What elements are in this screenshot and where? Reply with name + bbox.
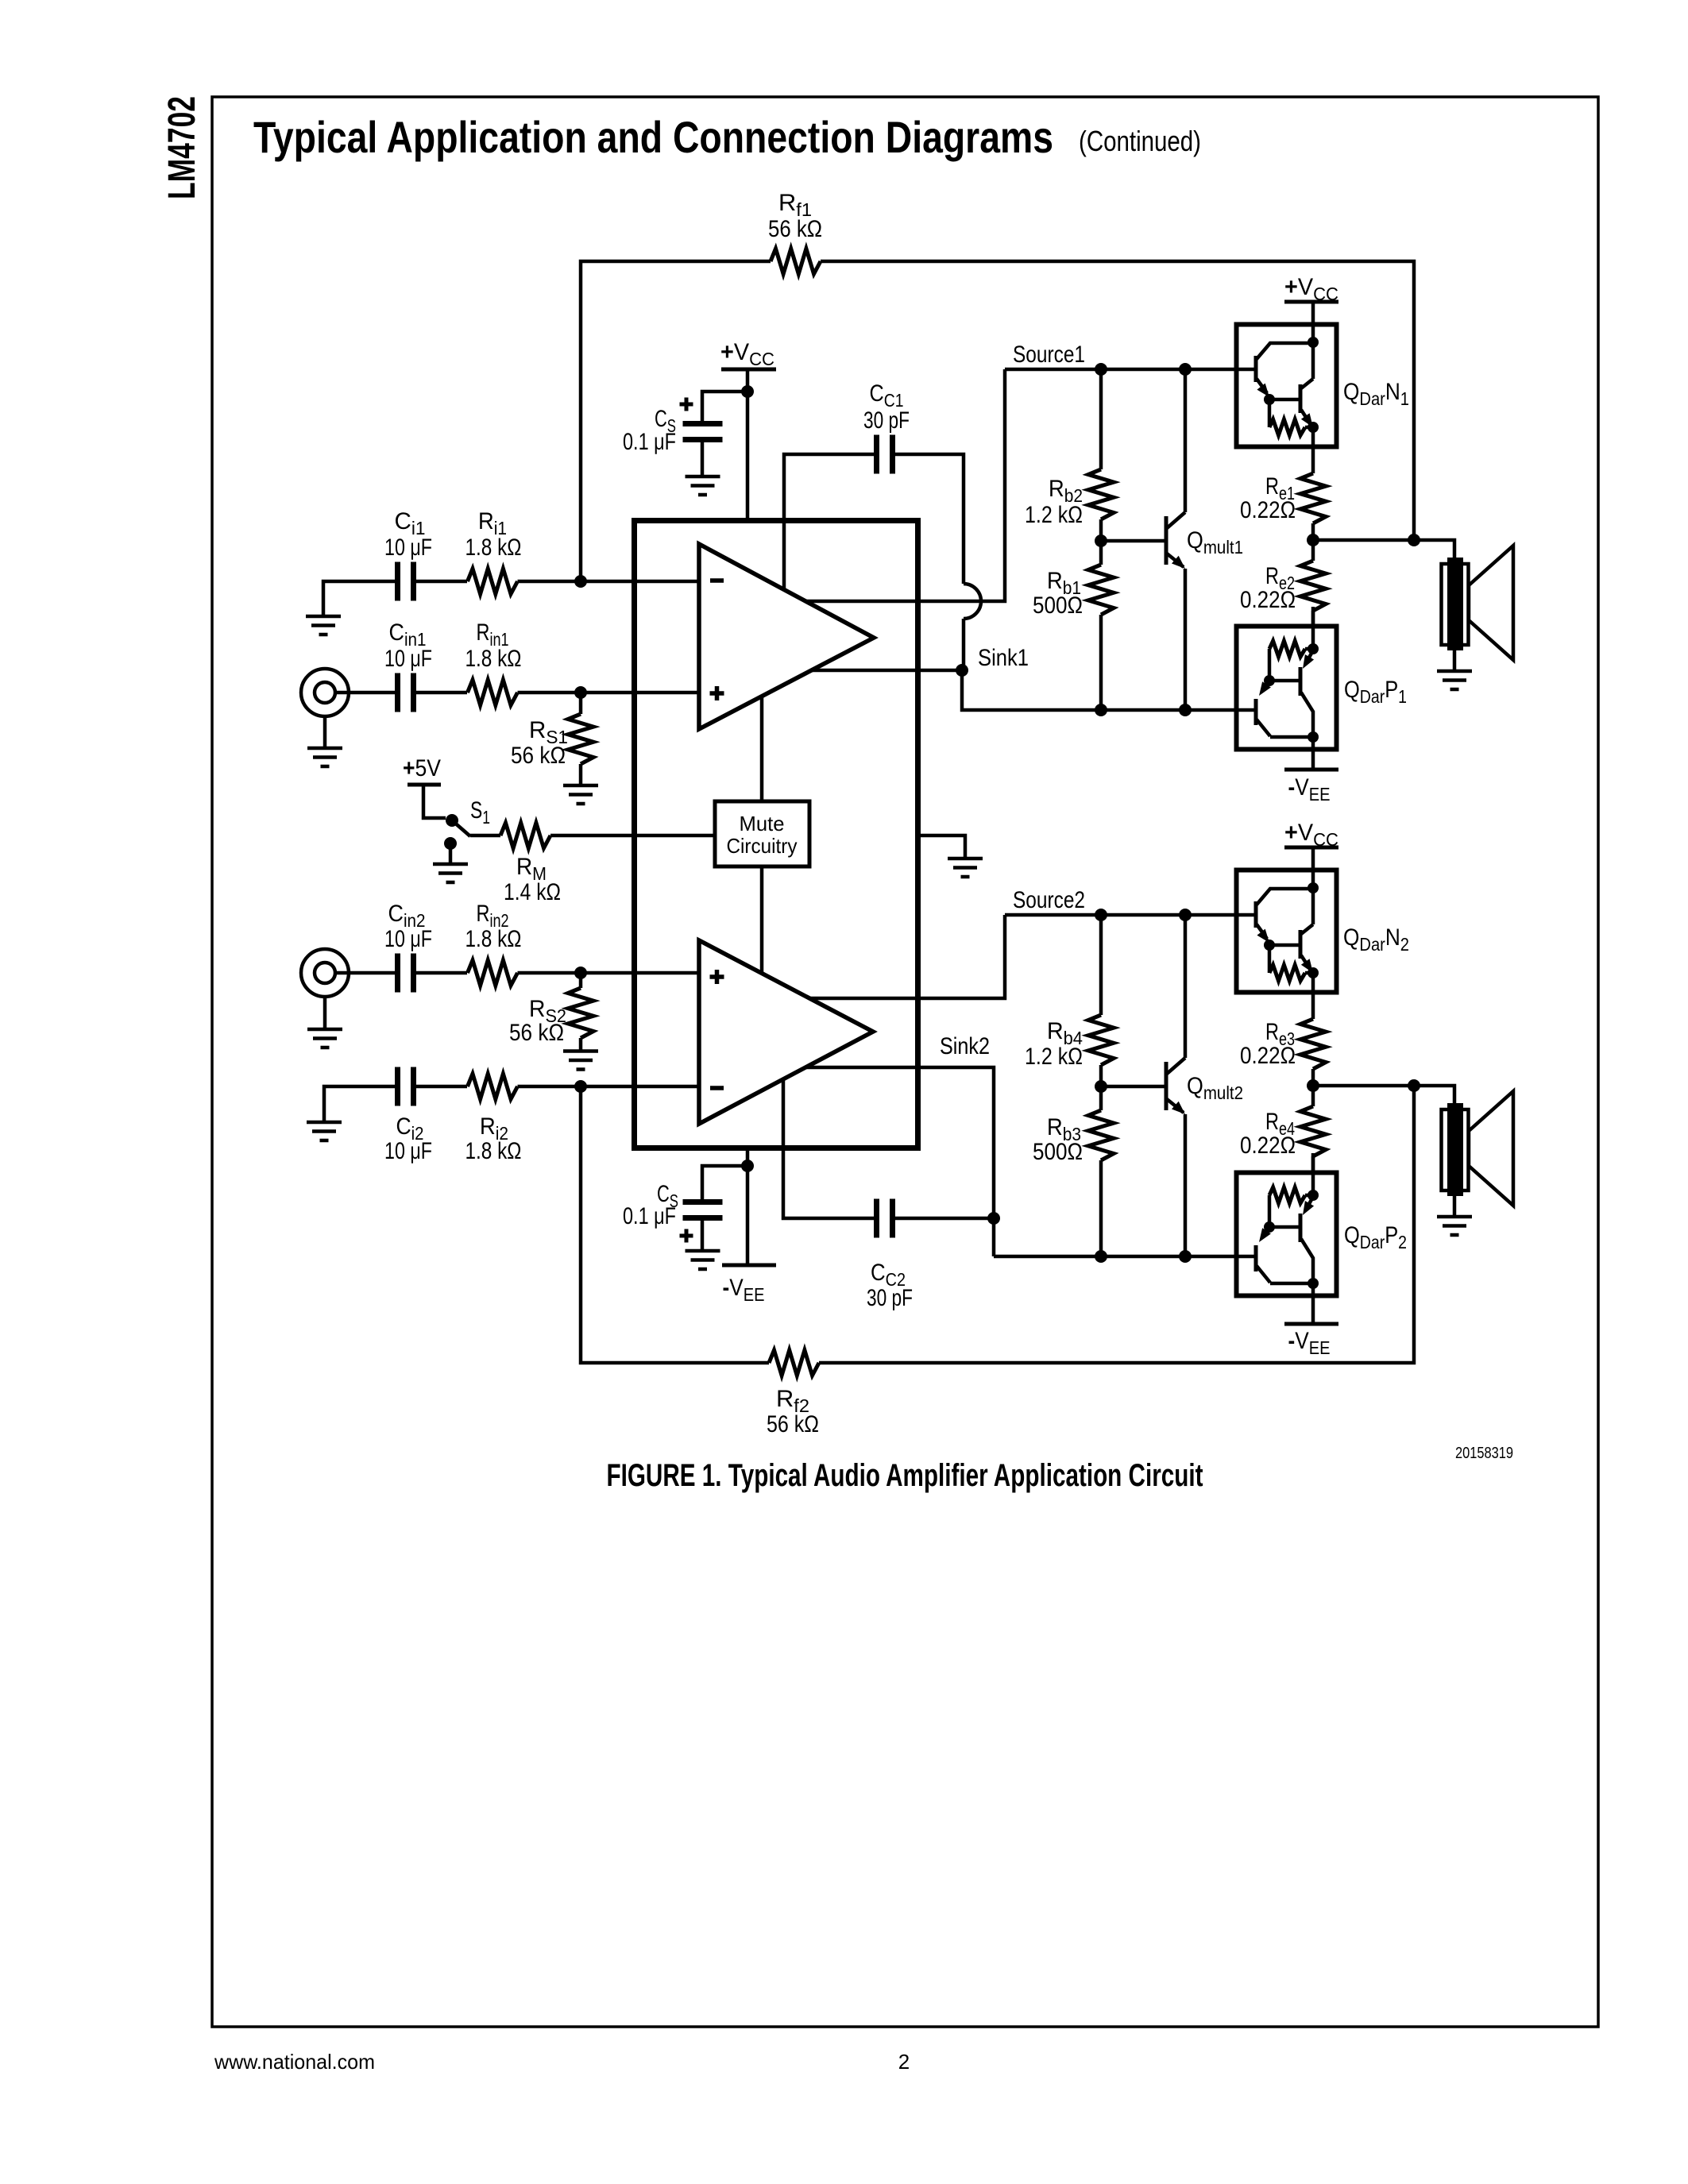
svg-text:0.22Ω: 0.22Ω — [1240, 497, 1296, 523]
power bar +VCC supply 1 — [721, 368, 776, 372]
wire Sink1 rail — [962, 670, 1254, 710]
node Source2 Qmult2 — [1179, 909, 1192, 921]
wire Source1 to Rb2 — [1099, 369, 1103, 469]
capacitor CS top — [683, 424, 723, 440]
svg-text:0.1 μF: 0.1 μF — [623, 429, 676, 455]
node Sink1 — [956, 664, 968, 677]
node Qmult2 base — [1095, 1080, 1107, 1093]
capacitor Cin1 — [398, 673, 414, 712]
resistor Re3 — [1300, 1019, 1326, 1069]
svg-text:56 kΩ: 56 kΩ — [767, 1411, 819, 1437]
darlington output transistor QDarN1 — [1237, 302, 1337, 473]
wire op-amp U1 comp pin to CC1 — [784, 454, 876, 589]
wire Re4 to QDarP2 — [1311, 1156, 1315, 1174]
wire Sink2 rail — [994, 1255, 1254, 1259]
node Source1 Qmult1 — [1179, 363, 1192, 376]
wire Re2 to QDarP1 — [1311, 611, 1315, 627]
ground switch S1 — [433, 864, 468, 882]
speaker 2 driver — [1442, 1103, 1469, 1196]
node +VCC CS junction — [741, 385, 754, 398]
op-amp U1 non-inverting input marker — [710, 686, 724, 700]
wire Ri1 to op-amp U1 inverting input — [518, 580, 700, 584]
polarity plus CS top — [680, 398, 693, 411]
wire Cin1 to Rin1 — [416, 691, 467, 695]
node Source2 Rb4 — [1095, 909, 1107, 921]
wire base node to Rb1 — [1099, 541, 1103, 565]
wire RCA jack 2 to Cin2 — [335, 971, 395, 975]
svg-text:1.8 kΩ: 1.8 kΩ — [465, 1138, 522, 1164]
wire op-amp U2 comp pin to CC2 — [783, 1079, 876, 1218]
ground speaker 2 — [1437, 1217, 1472, 1235]
wire feedback 1 right — [821, 261, 1414, 540]
wire op-amp U1 source output — [805, 369, 1005, 601]
wire Source2 rail — [1005, 913, 1254, 917]
svg-text:30 pF: 30 pF — [867, 1285, 913, 1311]
svg-text:www.national.com: www.national.com — [214, 2050, 375, 2074]
transistor Qmult2 — [1166, 915, 1185, 1256]
svg-text:2: 2 — [898, 2050, 910, 2074]
svg-text:(Continued): (Continued) — [1079, 125, 1201, 157]
power bar +5V — [408, 783, 441, 787]
ground CS bottom — [686, 1251, 720, 1269]
wire output node 2 to speaker 2 — [1313, 1086, 1454, 1109]
svg-text:+5V: +5V — [403, 755, 441, 781]
svg-text:Mute: Mute — [740, 812, 785, 835]
svg-text:Sink1: Sink1 — [978, 645, 1029, 671]
wire speaker 2 to ground — [1453, 1196, 1457, 1216]
resistor Rb4 — [1088, 1015, 1114, 1065]
op-amp U2 non-inverting input marker — [710, 970, 724, 984]
svg-text:0.22Ω: 0.22Ω — [1240, 587, 1296, 613]
wire feedback 1 left — [581, 261, 771, 581]
node output 1 Re — [1307, 534, 1319, 546]
svg-text:56 kΩ: 56 kΩ — [511, 743, 566, 769]
svg-text:Source2: Source2 — [1013, 887, 1085, 913]
node output 2 Re — [1307, 1079, 1319, 1092]
capacitor Cin2 — [398, 954, 414, 993]
wire Rb1 to Sink1 rail — [1099, 615, 1103, 710]
resistor Rf2 — [769, 1350, 819, 1376]
wire Rin2 to op-amp U2 non-inverting input — [518, 971, 700, 975]
wire Re4 from output node 2 — [1311, 1086, 1315, 1106]
wire QDarP1 to -VEE — [1311, 750, 1315, 770]
op-amp U1 inverting input marker — [710, 578, 724, 583]
page frame — [212, 97, 1598, 2027]
resistor RM — [500, 823, 550, 848]
svg-text:Sink2: Sink2 — [940, 1033, 990, 1059]
wire RCA jack 2 to ground — [323, 997, 327, 1028]
svg-text:0.22Ω: 0.22Ω — [1240, 1133, 1296, 1159]
darlington output transistor QDarP1 — [1237, 607, 1337, 750]
power bar +VCC QDarN1 — [1284, 300, 1338, 304]
speaker 1 driver — [1442, 558, 1469, 650]
wire feedback 2 left — [581, 1086, 769, 1363]
wire CS bottom — [702, 1166, 747, 1199]
wire Re2 from output node 1 — [1311, 540, 1315, 561]
node Sink2 Rb3 — [1095, 1250, 1107, 1263]
svg-text:1.8 kΩ: 1.8 kΩ — [465, 646, 522, 672]
wire Qmult1 base — [1101, 539, 1165, 543]
wire switch to RM — [470, 834, 500, 838]
wire switch lower contact to ground — [449, 843, 453, 863]
svg-text:1.8 kΩ: 1.8 kΩ — [465, 926, 522, 952]
wire op-amp U1 sink output — [812, 669, 962, 673]
speaker 2 horn — [1469, 1091, 1513, 1206]
svg-text:10 μF: 10 μF — [384, 926, 432, 952]
capacitor Ci1 — [398, 562, 414, 601]
svg-text:500Ω: 500Ω — [1033, 592, 1083, 619]
ground CS top — [686, 477, 720, 495]
transistor Qmult1 — [1166, 369, 1185, 710]
svg-text:56 kΩ: 56 kΩ — [509, 1020, 564, 1046]
resistor Rf1 — [771, 249, 821, 274]
switch S1 lower contact — [444, 837, 457, 850]
speaker 1 horn — [1469, 546, 1513, 660]
resistor Ri1 — [468, 569, 518, 594]
wire Rin1 to op-amp U1 non-inverting input — [518, 691, 700, 695]
svg-text:500Ω: 500Ω — [1033, 1139, 1083, 1165]
wire QDarP2 to -VEE — [1311, 1296, 1315, 1324]
node inverting input 2 — [574, 1080, 587, 1093]
wire Cin2 to Rin2 — [416, 971, 467, 975]
wire RCA jack 1 to Cin1 — [335, 691, 395, 695]
wire Qmult2 base — [1101, 1085, 1165, 1089]
wire CS top to ground — [701, 442, 705, 476]
wire Ci2 left to ground — [324, 1086, 395, 1121]
ground Ci1 input — [306, 616, 341, 635]
node Qmult1 base — [1095, 534, 1107, 547]
op-amp U1 — [699, 544, 874, 729]
ground IC pin — [948, 859, 983, 877]
svg-text:20158319: 20158319 — [1455, 1445, 1513, 1462]
svg-text:10 μF: 10 μF — [384, 534, 432, 561]
capacitor CS bottom — [683, 1202, 723, 1218]
wire Rb4 to base node — [1099, 1065, 1103, 1086]
wire to RS2 — [579, 973, 583, 988]
wire IC ground pin — [918, 835, 965, 859]
wire output node 1 to speaker 1 — [1313, 540, 1454, 564]
wire Re3 to output node 2 — [1311, 1069, 1315, 1086]
mute circuitry box — [715, 801, 809, 866]
wire Re1 to output node 1 — [1311, 523, 1315, 540]
wire Rb3 to Sink2 rail — [1099, 1160, 1103, 1256]
svg-text:Source1: Source1 — [1013, 341, 1085, 368]
wire CS bottom to ground — [701, 1221, 705, 1250]
svg-text:0.1 μF: 0.1 μF — [623, 1203, 676, 1229]
wire hop over source1 output — [964, 584, 981, 619]
resistor Rin2 — [468, 960, 518, 986]
ground RS2 — [563, 1051, 598, 1070]
node Sink2 Qmult2 — [1179, 1250, 1192, 1263]
node non-inverting input 1 — [574, 686, 587, 699]
wire RS1 to ground — [579, 764, 583, 785]
wire Ci1 to Ri1 — [416, 580, 467, 584]
wire feedback 2 right — [819, 1086, 1414, 1363]
wire Source1 rail — [1005, 368, 1254, 372]
svg-text:1.8 kΩ: 1.8 kΩ — [465, 534, 522, 561]
wire mute circuitry to op-amp U2 — [760, 866, 764, 972]
power bar +VCC QDarN2 — [1284, 846, 1338, 850]
op-amp U2 inverting input marker — [710, 1086, 724, 1090]
wire RS2 to ground — [579, 1038, 583, 1050]
svg-text:30 pF: 30 pF — [863, 407, 910, 434]
resistor Rb1 — [1088, 565, 1114, 615]
power bar -VEE supply 2 — [722, 1264, 776, 1268]
node inverting input 1 — [574, 575, 587, 588]
wire +5V to switch — [423, 785, 446, 818]
node output 2 feedback — [1408, 1079, 1420, 1092]
wire op-amp U2 sink output — [805, 1067, 994, 1256]
IC boundary box — [635, 521, 918, 1148]
svg-text:1.4 kΩ: 1.4 kΩ — [504, 879, 561, 905]
node non-inverting input 2 — [574, 967, 587, 979]
wire speaker 1 to ground — [1453, 650, 1457, 670]
resistor Re2 — [1300, 561, 1326, 611]
node Sink1 Qmult1 — [1179, 704, 1192, 716]
svg-text:Typical Application and Connec: Typical Application and Connection Diagr… — [253, 112, 1053, 162]
darlington output transistor QDarP2 — [1237, 1153, 1337, 1296]
RCA jack input 2 — [301, 949, 349, 997]
ground Ci2 input — [307, 1122, 342, 1140]
wire Ci1 left to ground — [323, 581, 395, 615]
wire Ci2 to Ri2 — [416, 1085, 467, 1089]
node -VEE CS junction — [741, 1160, 754, 1172]
wire hop to sink1 node — [962, 619, 966, 670]
wire Ri2 to op-amp U2 inverting input — [518, 1085, 700, 1089]
resistor Rb2 — [1088, 469, 1114, 519]
resistor RS2 — [568, 988, 593, 1038]
svg-text:Circuitry: Circuitry — [727, 834, 798, 858]
capacitor Ci2 — [398, 1067, 414, 1106]
capacitor CC2 — [877, 1199, 893, 1238]
wire Source2 to Rb4 — [1099, 915, 1103, 1015]
power bar -VEE QDarP1 — [1284, 768, 1338, 772]
wire CC1 to hop — [893, 454, 964, 584]
resistor Rb3 — [1088, 1110, 1114, 1160]
node Sink2 CC2 — [987, 1212, 1000, 1225]
ground RS1 — [563, 785, 598, 804]
svg-text:10 μF: 10 μF — [384, 1138, 432, 1164]
node Sink1 Rb1 — [1095, 704, 1107, 716]
wire base node to Rb3 — [1099, 1086, 1103, 1110]
resistor Re4 — [1300, 1106, 1326, 1156]
resistor RS1 — [568, 714, 593, 764]
ground RCA jack 2 — [307, 1029, 342, 1048]
wire op-amp U2 source output — [809, 915, 1005, 998]
switch S1 lever — [452, 820, 470, 836]
svg-text:10 μF: 10 μF — [384, 646, 432, 672]
wire op-amp U1 to mute circuitry — [760, 696, 764, 801]
wire +VCC to IC — [746, 369, 750, 518]
resistor Re1 — [1300, 473, 1326, 523]
svg-text:LM4702: LM4702 — [161, 96, 203, 199]
svg-text:1.2 kΩ: 1.2 kΩ — [1025, 502, 1083, 528]
op-amp U2 — [699, 940, 873, 1124]
svg-text:1.2 kΩ: 1.2 kΩ — [1025, 1044, 1083, 1070]
wire Rb2 to base node — [1099, 519, 1103, 541]
wire IC to -VEE bottom — [746, 1148, 750, 1265]
resistor Rin1 — [468, 680, 518, 705]
RCA jack input 1 — [301, 669, 349, 716]
wire CC2 to Sink2 — [893, 1217, 994, 1221]
ground RCA jack 1 — [307, 748, 342, 766]
node output 1 feedback — [1408, 534, 1420, 546]
switch S1 common contact — [446, 814, 458, 827]
wire RM to mute circuitry — [550, 834, 715, 838]
resistor Ri2 — [468, 1074, 518, 1099]
polarity plus CS bottom — [680, 1229, 693, 1243]
wire to RS1 — [579, 693, 583, 714]
svg-text:0.22Ω: 0.22Ω — [1240, 1043, 1296, 1069]
node Source1 Rb2 — [1095, 363, 1107, 376]
ground speaker 1 — [1437, 671, 1472, 689]
wire CS top — [702, 392, 747, 421]
svg-text:FIGURE 1. Typical Audio Amplif: FIGURE 1. Typical Audio Amplifier Applic… — [607, 1458, 1203, 1493]
wire RCA jack 1 to ground — [323, 716, 327, 747]
svg-text:56 kΩ: 56 kΩ — [768, 216, 822, 242]
capacitor CC1 — [877, 435, 893, 474]
darlington output transistor QDarN2 — [1237, 847, 1337, 1019]
power bar -VEE QDarP2 — [1284, 1322, 1338, 1326]
